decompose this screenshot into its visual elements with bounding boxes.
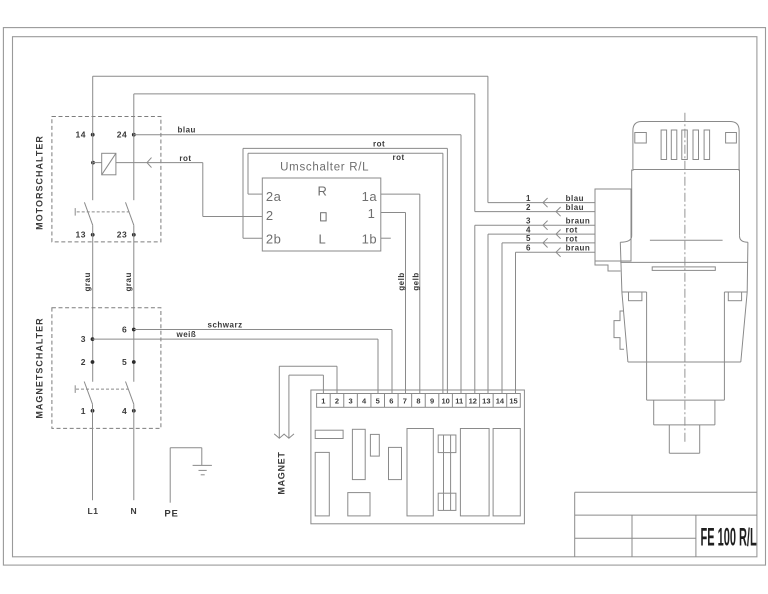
svg-text:2a: 2a [266,189,282,204]
svg-text:5: 5 [376,397,380,406]
svg-text:N: N [130,506,137,516]
svg-text:rot: rot [566,234,578,243]
svg-text:1: 1 [368,206,376,221]
svg-text:braun: braun [566,217,591,226]
svg-text:Umschalter R/L: Umschalter R/L [280,162,369,174]
svg-text:6: 6 [122,325,127,335]
svg-text:rot: rot [566,226,578,235]
svg-text:10: 10 [441,397,449,406]
svg-text:R: R [317,183,327,198]
svg-text:1a: 1a [362,189,378,204]
svg-text:1: 1 [321,397,325,406]
svg-text:11: 11 [455,397,463,406]
svg-text:schwarz: schwarz [208,321,243,330]
svg-text:9: 9 [430,397,434,406]
svg-text:5: 5 [122,357,127,367]
svg-text:gelb: gelb [412,272,421,290]
svg-text:rot: rot [373,140,385,149]
svg-text:13: 13 [76,230,86,240]
svg-text:2: 2 [335,397,339,406]
svg-text:L: L [319,232,327,247]
svg-text:15: 15 [509,397,517,406]
svg-text:14: 14 [76,130,86,140]
svg-text:4: 4 [526,225,531,234]
svg-text:blau: blau [566,194,584,203]
svg-text:2: 2 [266,208,274,223]
svg-text:3: 3 [348,397,352,406]
svg-text:MAGNET: MAGNET [276,451,286,494]
svg-text:braun: braun [566,244,591,253]
svg-text:MOTORSCHALTER: MOTORSCHALTER [34,135,44,230]
svg-text:gelb: gelb [397,272,406,290]
svg-text:4: 4 [122,406,127,416]
svg-text:rot: rot [179,154,191,163]
svg-text:L1: L1 [88,506,99,516]
svg-text:2: 2 [81,357,86,367]
svg-text:24: 24 [117,130,127,140]
svg-text:MAGNETSCHALTER: MAGNETSCHALTER [34,317,44,418]
svg-text:14: 14 [496,397,505,406]
svg-text:23: 23 [117,230,127,240]
svg-text:blau: blau [178,125,196,134]
svg-text:5: 5 [526,234,531,243]
svg-text:13: 13 [482,397,490,406]
svg-text:6: 6 [526,243,531,252]
svg-text:1: 1 [81,406,86,416]
svg-text:7: 7 [403,397,407,406]
svg-text:3: 3 [526,216,531,225]
svg-text:grau: grau [83,272,92,291]
svg-text:blau: blau [566,203,584,212]
svg-text:8: 8 [416,397,420,406]
svg-text:FE 100 R/L: FE 100 R/L [701,525,757,552]
svg-text:6: 6 [389,397,393,406]
svg-text:1b: 1b [362,232,377,247]
svg-text:rot: rot [393,153,405,162]
svg-text:1: 1 [526,194,531,203]
svg-text:grau: grau [124,272,133,291]
svg-text:weiß: weiß [176,330,197,339]
svg-text:2b: 2b [266,232,281,247]
svg-text:12: 12 [469,397,477,406]
svg-text:2: 2 [526,203,531,212]
svg-text:3: 3 [81,334,86,344]
svg-text:PE: PE [164,508,178,519]
